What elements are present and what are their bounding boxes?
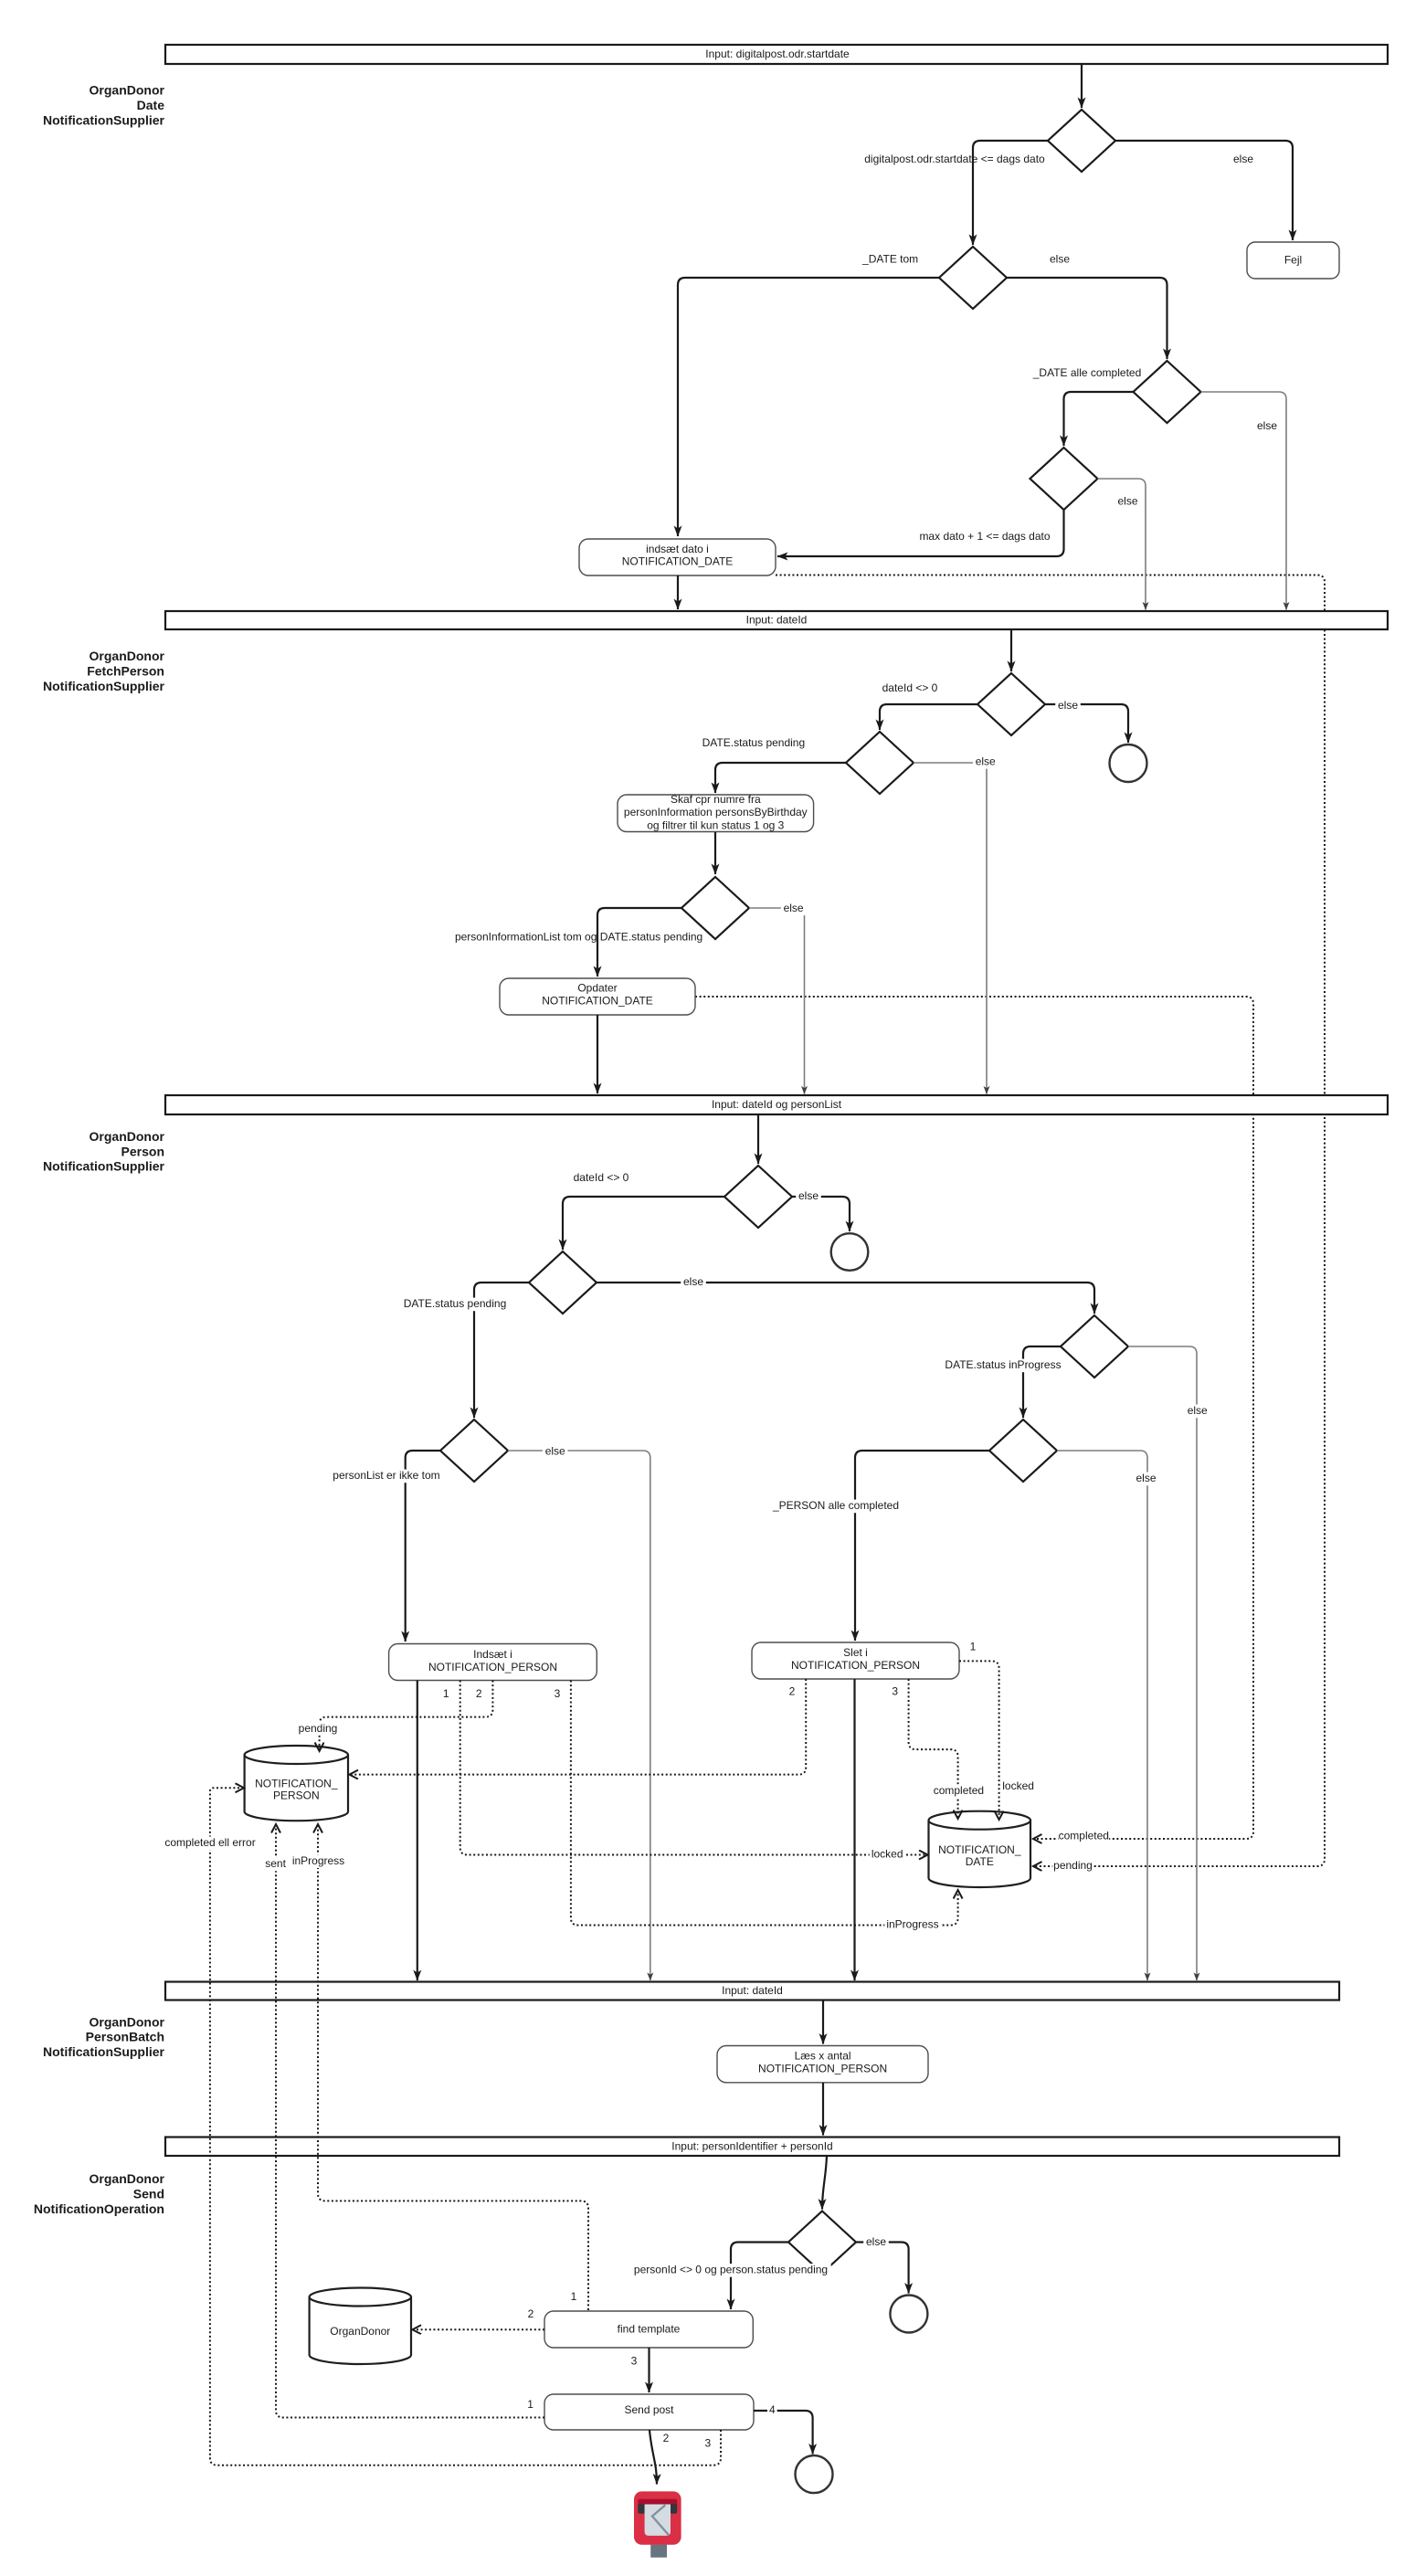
decision D6 DATE.status pending — [846, 732, 914, 794]
svg-text:sent: sent — [265, 1857, 286, 1870]
svg-text:1: 1 — [443, 1687, 449, 1700]
svg-text:OrganDonor: OrganDonor — [90, 2171, 165, 2186]
svg-text:Skaf cpr numre fra: Skaf cpr numre fra — [671, 793, 761, 806]
wire D13 to find template — [731, 2243, 788, 2310]
wire D2 to indsaet box — [678, 278, 939, 536]
wire dotted Indsaet-2 to NOTIFICATION_PERSON (pending) — [320, 1681, 493, 1752]
label completed ell error — [159, 1837, 261, 1851]
svg-text:NOTIFICATION_DATE: NOTIFICATION_DATE — [542, 994, 653, 1007]
wire dotted Send-1 to NOTIFICATION_PERSON (sent) — [276, 1824, 544, 2418]
wire bar1 to decision D1 — [1081, 64, 1083, 108]
wire D7 to Opdater box — [597, 908, 681, 977]
svg-text:DATE.status pending: DATE.status pending — [404, 1297, 507, 1310]
wire D11 to Indsaet box — [406, 1451, 440, 1642]
svg-text:3: 3 — [631, 2354, 638, 2367]
label else D10 — [1185, 1405, 1210, 1419]
wire Send post 4 to end circle C3 — [754, 2411, 813, 2455]
svg-text:NotificationSupplier: NotificationSupplier — [43, 2044, 165, 2059]
wire D7 else to bar3 (grey) — [749, 908, 805, 1094]
svg-text:locked: locked — [872, 1848, 903, 1861]
svg-text:2: 2 — [528, 2307, 534, 2320]
wire D1 to D2 — [973, 141, 1048, 245]
svg-text:inProgress: inProgress — [292, 1854, 344, 1867]
decision D7 personInformationList check — [681, 877, 749, 939]
end circle C4 — [890, 2296, 927, 2333]
database NOTIFICATION_PERSON — [245, 1755, 348, 1821]
svg-text:personInformationList tom og D: personInformationList tom og DATE.status… — [455, 930, 702, 943]
database OrganDonor — [310, 2297, 411, 2365]
wire D5 else to end circle C1 — [1045, 704, 1128, 743]
label pending right of DATE db — [1052, 1859, 1093, 1873]
box Laes x antal NOTIFICATION_PERSON — [717, 2046, 928, 2083]
svg-text:Send: Send — [133, 2187, 164, 2201]
wire D4 to indsaet box right edge — [777, 510, 1064, 556]
wire D10 else to bar4 (grey) — [1128, 1346, 1197, 1980]
svg-text:else: else — [1136, 1472, 1156, 1484]
wire Skaf to D7 — [714, 832, 716, 874]
label else D11 — [543, 1445, 568, 1459]
svg-text:digitalpost.odr.startdate <= d: digitalpost.odr.startdate <= dags dato — [864, 153, 1045, 165]
bar Input: digitalpost.odr.startdate — [165, 45, 1388, 64]
svg-text:Input: dateId: Input: dateId — [722, 1984, 783, 1997]
svg-text:Input: dateId og personList: Input: dateId og personList — [712, 1098, 842, 1111]
label personId <> 0 og person.status pending — [630, 2264, 830, 2277]
wire D8 to D9 — [563, 1197, 724, 1250]
wire Laes to bar5 — [822, 2083, 824, 2136]
svg-text:DATE: DATE — [966, 1855, 994, 1868]
svg-text:1: 1 — [527, 2398, 533, 2411]
svg-text:2: 2 — [663, 2432, 670, 2444]
wire Indsaet to bar4 — [417, 1681, 418, 1981]
wire bar4 to Laes box — [822, 2001, 824, 2044]
svg-text:else: else — [1257, 419, 1277, 432]
decision D1 startdate check — [1048, 110, 1115, 172]
svg-text:2: 2 — [789, 1685, 796, 1698]
wire dotted Indsaet-1 to NOTIFICATION_DATE (locked) — [460, 1681, 928, 1855]
wire D12 to Slet box — [855, 1451, 989, 1641]
decision D5 dateId check — [977, 673, 1045, 735]
svg-text:OrganDonor: OrganDonor — [90, 649, 165, 663]
svg-text:Person: Person — [121, 1144, 164, 1158]
svg-text:else: else — [784, 902, 804, 914]
svg-text:find template: find template — [618, 2323, 681, 2336]
box indsaet dato i NOTIFICATION_DATE — [579, 539, 776, 575]
decision D10 DATE.status inProgress — [1061, 1315, 1128, 1378]
svg-text:FetchPerson: FetchPerson — [87, 664, 164, 679]
label sent — [263, 1858, 289, 1872]
svg-text:NOTIFICATION_PERSON: NOTIFICATION_PERSON — [791, 1659, 920, 1672]
svg-text:completed: completed — [1059, 1829, 1109, 1842]
wire D3 to D4 — [1064, 392, 1134, 446]
box Fejl — [1247, 242, 1339, 279]
wire dotted Send-3 to NOTIFICATION_PERSON (completed ell error) — [210, 1788, 721, 2465]
decision D3 _DATE alle completed — [1134, 361, 1201, 423]
wire D3 else to bar2 (grey) — [1201, 392, 1287, 610]
wire dotted find-2 to OrganDonor db — [413, 2328, 545, 2330]
svg-text:Input: personIdentifier + pers: Input: personIdentifier + personId — [671, 2139, 832, 2152]
box find template — [544, 2311, 753, 2348]
svg-text:dateId <> 0: dateId <> 0 — [574, 1171, 629, 1184]
svg-text:PersonBatch: PersonBatch — [86, 2030, 164, 2044]
end circle C3 — [796, 2455, 833, 2493]
wire dotted Slet-2 to NOTIFICATION_PERSON — [350, 1679, 807, 1775]
svg-text:OrganDonor: OrganDonor — [90, 2014, 165, 2029]
decision D4 max dato check — [1030, 448, 1098, 510]
svg-text:OrganDonor: OrganDonor — [330, 2325, 390, 2338]
svg-text:Fejl: Fejl — [1284, 254, 1302, 267]
label DATE.status inProgress — [944, 1359, 1062, 1373]
svg-text:Input: dateId: Input: dateId — [746, 614, 808, 627]
box Indsaet i NOTIFICATION_PERSON — [389, 1644, 597, 1681]
svg-text:3: 3 — [892, 1684, 898, 1697]
svg-text:indsæt dato i: indsæt dato i — [646, 543, 709, 555]
label else D8 — [796, 1190, 821, 1204]
svg-text:NOTIFICATION_PERSON: NOTIFICATION_PERSON — [758, 2063, 887, 2075]
svg-text:locked: locked — [1002, 1779, 1034, 1792]
label locked above DATE db — [1000, 1780, 1036, 1794]
svg-text:Opdater: Opdater — [577, 981, 617, 994]
wire D10 to D12 — [1023, 1346, 1061, 1418]
box Slet i NOTIFICATION_PERSON — [752, 1642, 959, 1679]
svg-text:completed: completed — [934, 1784, 984, 1797]
svg-text:3: 3 — [704, 2436, 711, 2449]
svg-text:NotificationSupplier: NotificationSupplier — [43, 1159, 165, 1174]
wire D13 else to end circle C4 — [856, 2243, 909, 2294]
label inProgress below DATE db — [884, 1918, 940, 1932]
svg-text:max dato + 1 <= dags dato: max dato + 1 <= dags dato — [919, 530, 1050, 543]
box Opdater NOTIFICATION_DATE — [500, 978, 695, 1015]
svg-text:else: else — [866, 2235, 886, 2248]
svg-text:_DATE alle completed: _DATE alle completed — [1032, 366, 1142, 379]
wire bar2 to decision D5 — [1010, 629, 1012, 671]
box Skaf cpr numre — [618, 795, 814, 832]
svg-text:_DATE tom: _DATE tom — [861, 253, 918, 266]
svg-text:Slet i: Slet i — [843, 1646, 868, 1659]
decision D12 _PERSON alle completed — [989, 1420, 1057, 1482]
svg-text:NotificationSupplier: NotificationSupplier — [43, 679, 165, 693]
decision D2 _DATE tom — [939, 247, 1007, 309]
svg-text:else: else — [1050, 253, 1070, 266]
end circle C2 — [831, 1233, 869, 1271]
svg-text:inProgress: inProgress — [886, 1918, 938, 1931]
svg-text:else: else — [1117, 495, 1137, 508]
database NOTIFICATION_DATE — [929, 1821, 1031, 1887]
icon postbox red — [634, 2491, 681, 2557]
wire D1 to Fejl — [1115, 141, 1293, 240]
svg-text:pending: pending — [1053, 1859, 1093, 1872]
svg-text:OrganDonor: OrganDonor — [90, 1129, 165, 1144]
svg-text:NOTIFICATION_: NOTIFICATION_ — [255, 1778, 338, 1790]
svg-text:NotificationOperation: NotificationOperation — [34, 2201, 164, 2216]
wire D5 to D6 — [880, 704, 977, 730]
svg-text:Læs x antal: Læs x antal — [795, 2050, 851, 2063]
svg-text:else: else — [976, 755, 996, 768]
bar Input: dateId (lane4) — [165, 1982, 1339, 2001]
bar Input: personIdentifier + personId — [165, 2138, 1339, 2157]
wire D4 else to bar2 (grey) — [1098, 479, 1146, 610]
label else D7 — [781, 902, 807, 915]
decision D8 dateId check lane3 — [724, 1166, 792, 1228]
svg-text:DATE.status inProgress: DATE.status inProgress — [945, 1358, 1061, 1371]
svg-text:else: else — [798, 1189, 819, 1202]
wire D12 else to bar4 (grey) — [1057, 1451, 1147, 1980]
svg-text:Indsæt i: Indsæt i — [473, 1648, 512, 1661]
wire dotted Indsaet-3 to NOTIFICATION_DATE (inProgress) — [571, 1681, 958, 1926]
svg-text:1: 1 — [970, 1641, 977, 1653]
svg-text:_PERSON alle completed: _PERSON alle completed — [772, 1499, 899, 1512]
label else D6 — [973, 755, 998, 769]
wire Send post 2 to postbox (curved) — [650, 2430, 657, 2485]
wire D9 to D11 — [474, 1283, 529, 1418]
wire D6 else to bar3 (grey) — [914, 763, 987, 1094]
svg-text:personList er ikke tom: personList er ikke tom — [333, 1469, 439, 1482]
label else D13 — [863, 2235, 889, 2249]
label DATE.status pending lane3 — [404, 1298, 506, 1312]
svg-text:NOTIFICATION_DATE: NOTIFICATION_DATE — [622, 554, 734, 567]
wire Slet to bar4 — [853, 1679, 855, 1980]
svg-text:4: 4 — [769, 2403, 776, 2416]
wire dotted: indsaet dato box to NOTIFICATION_DATE (pending) — [776, 575, 1325, 1867]
decision D9 DATE.status pending lane3 — [529, 1251, 597, 1314]
svg-text:3: 3 — [555, 1687, 561, 1700]
wire dotted: Opdater box to NOTIFICATION_DATE (completed) — [695, 997, 1253, 1839]
wire D6 to Skaf box — [715, 763, 846, 793]
wire bar5 to decision D13 — [822, 2156, 827, 2210]
svg-text:Input: digitalpost.odr.startda: Input: digitalpost.odr.startdate — [705, 48, 850, 60]
wire D8 else to end circle C2 — [792, 1197, 850, 1231]
wire dotted Slet-3 to NOTIFICATION_DATE (completed) — [909, 1679, 958, 1819]
label _PERSON alle completed — [776, 1500, 894, 1514]
label completed right of DATE db — [1058, 1830, 1109, 1843]
svg-text:personId <> 0 og person.status: personId <> 0 og person.status pending — [634, 2264, 828, 2276]
label completed above DATE db — [934, 1784, 985, 1798]
wire indsaet box to bar2 — [677, 575, 679, 609]
label pending — [298, 1722, 338, 1736]
wire bar3 to decision D8 — [757, 1114, 759, 1164]
svg-text:NotificationSupplier: NotificationSupplier — [43, 113, 165, 128]
svg-text:DATE.status pending: DATE.status pending — [702, 736, 806, 749]
svg-text:2: 2 — [476, 1687, 482, 1700]
end circle C1 — [1110, 744, 1147, 782]
wire dotted Slet-1 to NOTIFICATION_DATE (locked) — [959, 1661, 999, 1820]
svg-text:og filtrer til kun status 1 og: og filtrer til kun status 1 og 3 — [647, 818, 784, 831]
bar Input: dateId og personList — [165, 1095, 1388, 1114]
svg-text:else: else — [545, 1445, 565, 1458]
decision D13 personId check — [788, 2212, 856, 2274]
svg-text:Send post: Send post — [624, 2403, 674, 2416]
svg-text:personInformation personsByBir: personInformation personsByBirthday — [624, 806, 808, 818]
bar Input: dateId (lane2) — [165, 611, 1388, 629]
svg-text:completed ell error: completed ell error — [164, 1836, 255, 1849]
wire D2 to D3 — [1007, 278, 1167, 359]
svg-text:else: else — [683, 1275, 703, 1288]
svg-text:dateId <> 0: dateId <> 0 — [882, 681, 938, 694]
svg-text:else: else — [1233, 153, 1253, 165]
svg-text:OrganDonor: OrganDonor — [90, 83, 165, 98]
box Send post — [544, 2394, 754, 2430]
label locked left of DATE db — [870, 1848, 905, 1862]
wire dotted find-1 to NOTIFICATION_PERSON (inProgress) — [318, 1824, 588, 2310]
svg-text:PERSON: PERSON — [273, 1789, 320, 1802]
svg-text:NOTIFICATION_PERSON: NOTIFICATION_PERSON — [428, 1661, 557, 1673]
wire D11 else to bar4 (grey) — [508, 1451, 650, 1980]
label 4 Send post — [767, 2404, 777, 2418]
label personList er ikke tom — [327, 1470, 445, 1483]
svg-text:NOTIFICATION_: NOTIFICATION_ — [938, 1843, 1021, 1856]
svg-text:else: else — [1058, 699, 1078, 712]
wire Opdater to bar3 — [597, 1015, 598, 1093]
svg-text:pending: pending — [299, 1722, 338, 1735]
decision D11 personList check — [440, 1420, 508, 1482]
svg-text:else: else — [1188, 1404, 1208, 1417]
wire find template to Send post — [648, 2348, 650, 2392]
label else D5 — [1055, 700, 1081, 713]
label inProgress left — [291, 1854, 346, 1868]
label else D9 — [681, 1276, 706, 1290]
svg-text:1: 1 — [571, 2290, 577, 2303]
label else D12 — [1134, 1473, 1159, 1486]
wire D9 else to D10 — [597, 1283, 1094, 1314]
svg-text:Date: Date — [137, 98, 165, 112]
